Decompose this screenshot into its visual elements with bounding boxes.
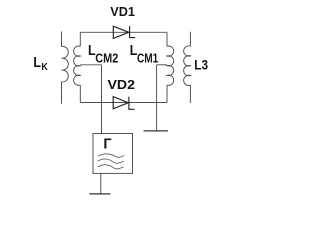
inductor LCM2 winding xyxy=(74,46,81,85)
svg-text:L: L xyxy=(33,55,41,71)
wire LCM1 tap xyxy=(157,64,167,66)
diode VD2 xyxy=(113,97,128,109)
wire left rail top xyxy=(79,32,81,46)
wire LCM2 tap xyxy=(80,64,101,66)
inductor LK xyxy=(62,32,69,104)
wire generator drop xyxy=(101,65,103,134)
svg-text:VD2: VD2 xyxy=(108,77,136,92)
wire top horizontal xyxy=(80,31,167,33)
generator wave 1 xyxy=(98,154,124,157)
generator wave 2 xyxy=(98,159,124,163)
svg-text:VD1: VD1 xyxy=(110,4,135,19)
wire ground drop right xyxy=(156,65,158,131)
svg-text:CM1: CM1 xyxy=(137,52,158,66)
inductor LCM1 winding xyxy=(167,46,174,85)
ground bottom xyxy=(89,193,110,195)
wire generator to ground xyxy=(100,173,102,193)
inductor L3 xyxy=(184,32,191,103)
wire right rail top xyxy=(166,32,168,46)
svg-text:K: K xyxy=(41,61,48,73)
wire right rail bottom xyxy=(166,85,168,102)
generator wave 3 xyxy=(98,165,124,169)
wire bottom horizontal xyxy=(80,102,167,104)
svg-text:L3: L3 xyxy=(194,57,208,73)
svg-text:CM2: CM2 xyxy=(95,52,118,66)
wire left rail bottom xyxy=(79,85,81,102)
svg-text:Г: Г xyxy=(103,136,111,152)
generator box xyxy=(93,134,133,174)
ground right xyxy=(144,130,169,132)
diode VD1 xyxy=(113,26,129,38)
